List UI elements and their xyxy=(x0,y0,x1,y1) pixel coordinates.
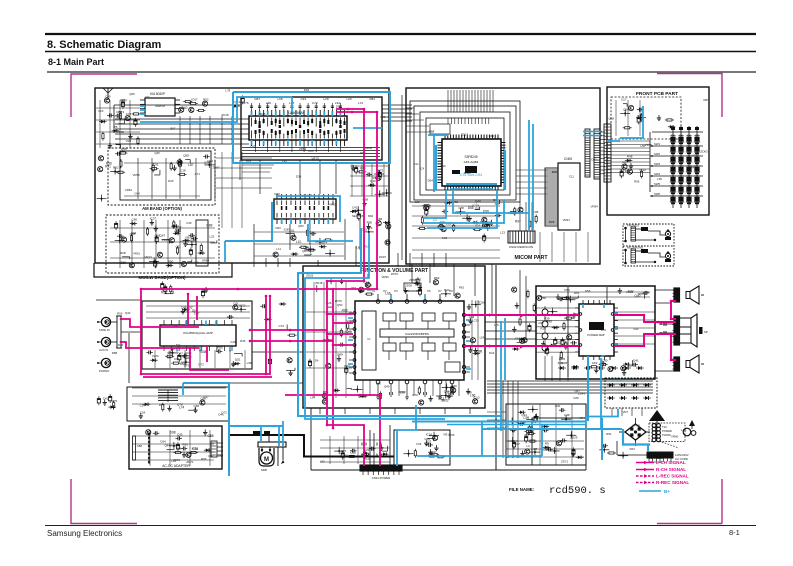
svg-text:AC-DC ADAPTER: AC-DC ADAPTER xyxy=(162,464,190,468)
svg-text:P3: P3 xyxy=(394,289,398,293)
svg-text:VR80: VR80 xyxy=(202,258,210,262)
svg-text:8-1 Main Part: 8-1 Main Part xyxy=(48,57,104,67)
svg-text:ZD54: ZD54 xyxy=(299,147,306,151)
svg-text:R59: R59 xyxy=(117,312,123,316)
svg-text:R42: R42 xyxy=(344,364,350,368)
svg-text:C41: C41 xyxy=(103,397,109,401)
svg-text:D97: D97 xyxy=(475,207,481,211)
svg-text:C88: C88 xyxy=(137,444,143,448)
svg-text:R28: R28 xyxy=(120,251,126,255)
svg-text:Q26: Q26 xyxy=(623,107,629,111)
svg-text:SW1: SW1 xyxy=(654,142,661,146)
svg-text:C11: C11 xyxy=(569,174,574,178)
svg-text:R5: R5 xyxy=(114,125,118,129)
svg-text:C33: C33 xyxy=(473,319,479,323)
svg-text:Q78: Q78 xyxy=(177,402,183,406)
svg-text:D46: D46 xyxy=(218,413,224,417)
svg-text:IC37: IC37 xyxy=(150,216,157,220)
svg-text:SW4: SW4 xyxy=(654,172,661,176)
svg-text:Q63: Q63 xyxy=(155,233,161,237)
svg-text:Q65: Q65 xyxy=(346,330,352,334)
svg-text:IC20: IC20 xyxy=(152,354,159,358)
svg-text:R-CH SIGNAL: R-CH SIGNAL xyxy=(656,467,686,472)
svg-text:C85: C85 xyxy=(308,149,314,153)
svg-text:R81: R81 xyxy=(574,291,580,295)
svg-text:C18: C18 xyxy=(416,442,422,446)
svg-text:R55: R55 xyxy=(161,290,167,294)
svg-text:R50: R50 xyxy=(217,345,223,349)
svg-text:Q30: Q30 xyxy=(125,311,131,315)
svg-text:R62: R62 xyxy=(459,285,465,289)
svg-text:MIC/PHONO: MIC/PHONO xyxy=(627,246,644,250)
svg-text:M08: M08 xyxy=(261,468,267,472)
svg-text:C26: C26 xyxy=(230,340,236,344)
svg-text:SW: SW xyxy=(679,135,684,138)
svg-text:L26: L26 xyxy=(366,457,371,461)
svg-text:R90: R90 xyxy=(168,259,174,263)
svg-text:R88: R88 xyxy=(112,351,118,355)
svg-text:ZD15: ZD15 xyxy=(379,255,386,259)
svg-text:R87: R87 xyxy=(703,98,709,102)
svg-text:Q82: Q82 xyxy=(208,454,214,458)
svg-text:SECTION: SECTION xyxy=(352,214,364,218)
svg-text:C82: C82 xyxy=(538,321,544,325)
svg-text:R28: R28 xyxy=(540,326,546,330)
svg-text:R9: R9 xyxy=(545,441,549,445)
svg-text:ZD18: ZD18 xyxy=(258,112,265,116)
svg-text:C68: C68 xyxy=(194,404,200,408)
svg-text:D94: D94 xyxy=(131,231,137,235)
svg-text:R76: R76 xyxy=(243,101,249,105)
svg-text:R81: R81 xyxy=(370,97,376,101)
svg-text:Q38: Q38 xyxy=(609,116,615,120)
svg-text:KIA4558 EQUAL AMP: KIA4558 EQUAL AMP xyxy=(183,331,213,335)
svg-text:ZD87: ZD87 xyxy=(212,166,219,170)
svg-text:R48: R48 xyxy=(627,155,633,159)
svg-text:POWER: POWER xyxy=(662,429,672,433)
svg-text:ZD70: ZD70 xyxy=(391,272,398,276)
svg-text:Q67: Q67 xyxy=(160,234,166,238)
svg-text:D56: D56 xyxy=(585,289,591,293)
svg-text:C54: C54 xyxy=(140,404,146,408)
svg-text:L54: L54 xyxy=(480,335,485,339)
svg-text:C17: C17 xyxy=(429,129,435,133)
svg-text:VR15: VR15 xyxy=(633,423,641,427)
svg-text:VR56: VR56 xyxy=(133,173,141,177)
svg-text:C95: C95 xyxy=(250,145,256,149)
svg-text:D4: D4 xyxy=(344,453,348,457)
svg-text:C69: C69 xyxy=(120,261,126,265)
svg-text:ZD30: ZD30 xyxy=(405,283,412,287)
svg-text:ZD15: ZD15 xyxy=(645,143,652,147)
svg-text:VR3: VR3 xyxy=(126,139,132,143)
svg-text:Q50: Q50 xyxy=(337,303,343,307)
svg-text:VR50: VR50 xyxy=(451,200,459,204)
svg-text:Q45: Q45 xyxy=(121,147,127,151)
svg-text:VR48: VR48 xyxy=(689,166,697,170)
svg-text:VR3: VR3 xyxy=(275,226,281,230)
svg-text:L96: L96 xyxy=(376,382,381,386)
svg-text:PHONES: PHONES xyxy=(627,224,639,228)
svg-text:L20: L20 xyxy=(347,97,352,101)
svg-text:IC4: IC4 xyxy=(475,224,480,228)
svg-text:D92: D92 xyxy=(591,158,597,162)
svg-text:D66: D66 xyxy=(625,169,631,173)
svg-text:R93: R93 xyxy=(182,442,188,446)
svg-text:VR91: VR91 xyxy=(563,218,571,222)
svg-text:R80: R80 xyxy=(541,296,547,300)
svg-text:KIA 6040P: KIA 6040P xyxy=(150,92,165,96)
svg-text:ZD5: ZD5 xyxy=(558,361,564,365)
svg-text:C99: C99 xyxy=(105,95,111,99)
svg-text:L95: L95 xyxy=(657,177,662,181)
svg-text:D89: D89 xyxy=(549,220,555,224)
svg-text:R91: R91 xyxy=(606,432,612,436)
svg-text:VR51: VR51 xyxy=(133,252,141,256)
svg-text:Q89: Q89 xyxy=(337,353,343,357)
svg-text:C18: C18 xyxy=(515,336,521,340)
svg-text:AUX IN: AUX IN xyxy=(99,348,108,352)
svg-text:Q79: Q79 xyxy=(184,364,190,368)
svg-text:C27: C27 xyxy=(621,98,627,102)
svg-text:VR2: VR2 xyxy=(629,447,635,451)
svg-text:Q40: Q40 xyxy=(440,164,446,168)
svg-text:D24: D24 xyxy=(160,439,166,443)
svg-text:MW/LW BAND(OPTION): MW/LW BAND(OPTION) xyxy=(139,275,187,280)
svg-text:L98: L98 xyxy=(247,361,252,365)
svg-text:VR96: VR96 xyxy=(382,275,390,279)
svg-text:D94: D94 xyxy=(428,178,434,182)
svg-text:C75: C75 xyxy=(112,399,118,403)
svg-text:VR45: VR45 xyxy=(173,458,181,462)
svg-text:D89: D89 xyxy=(207,223,213,227)
svg-text:SW6: SW6 xyxy=(654,192,661,196)
svg-text:Q49: Q49 xyxy=(384,384,390,388)
svg-text:R92: R92 xyxy=(434,276,440,280)
svg-text:D98: D98 xyxy=(170,431,176,435)
svg-text:8-1: 8-1 xyxy=(729,528,740,537)
svg-text:R95: R95 xyxy=(201,457,207,461)
svg-text:VR84: VR84 xyxy=(591,204,599,208)
svg-text:ZD42: ZD42 xyxy=(365,146,372,150)
svg-text:C62: C62 xyxy=(592,361,598,365)
svg-text:D73: D73 xyxy=(198,363,204,367)
svg-text:C92: C92 xyxy=(633,327,639,331)
svg-text:VR63: VR63 xyxy=(329,202,337,206)
svg-text:L-REC SIGNAL: L-REC SIGNAL xyxy=(656,474,689,479)
svg-text:ZD84: ZD84 xyxy=(409,278,416,282)
svg-text:C41: C41 xyxy=(380,115,386,119)
svg-text:Q45: Q45 xyxy=(154,151,160,155)
svg-text:R70: R70 xyxy=(601,328,607,332)
svg-text:R70: R70 xyxy=(413,393,419,397)
svg-text:R-REC SIGNAL: R-REC SIGNAL xyxy=(656,480,689,485)
svg-text:ZD17: ZD17 xyxy=(461,132,468,136)
svg-text:D25: D25 xyxy=(426,439,432,443)
svg-text:L58: L58 xyxy=(194,261,199,265)
svg-text:C72: C72 xyxy=(278,324,284,328)
svg-text:L67: L67 xyxy=(145,95,150,99)
svg-text:Q34: Q34 xyxy=(179,354,185,358)
svg-text:IC22: IC22 xyxy=(239,303,246,307)
svg-text:R87: R87 xyxy=(622,161,628,165)
svg-text:R45: R45 xyxy=(489,134,495,138)
svg-text:L66: L66 xyxy=(385,292,391,296)
svg-text:R17: R17 xyxy=(159,403,165,407)
svg-text:PHONO: PHONO xyxy=(99,369,110,373)
svg-text:L29: L29 xyxy=(324,97,329,101)
svg-text:ZD81: ZD81 xyxy=(464,171,471,175)
svg-text:C73: C73 xyxy=(312,101,318,105)
svg-text:ZD26: ZD26 xyxy=(162,238,169,242)
svg-text:C64: C64 xyxy=(134,191,140,195)
svg-text:Q80: Q80 xyxy=(168,350,174,354)
svg-text:Q58: Q58 xyxy=(183,154,189,158)
svg-text:TRANS: TRANS xyxy=(662,433,671,437)
svg-text:R52: R52 xyxy=(203,98,209,102)
svg-text:KA2245D/KBPRS: KA2245D/KBPRS xyxy=(405,332,429,336)
svg-text:D71: D71 xyxy=(195,172,201,176)
svg-text:SW3: SW3 xyxy=(654,162,661,166)
svg-text:SW: SW xyxy=(687,135,692,138)
svg-text:KIA6058AF: KIA6058AF xyxy=(287,111,304,115)
svg-text:ZD87: ZD87 xyxy=(552,170,559,174)
svg-text:CN02 REMOCON: CN02 REMOCON xyxy=(509,245,533,249)
svg-text:Q20: Q20 xyxy=(204,161,210,165)
svg-text:D34: D34 xyxy=(296,175,302,179)
svg-text:S3P8245: S3P8245 xyxy=(464,155,477,159)
svg-text:C30: C30 xyxy=(555,404,561,408)
svg-text:C12: C12 xyxy=(176,225,182,229)
svg-text:VR23: VR23 xyxy=(144,255,152,259)
svg-text:R79: R79 xyxy=(367,226,373,230)
svg-text:R70: R70 xyxy=(451,384,457,388)
svg-text:C4: C4 xyxy=(420,166,424,170)
svg-text:VR17: VR17 xyxy=(692,154,700,158)
svg-text:Samsung Electronics: Samsung Electronics xyxy=(47,529,122,538)
svg-text:C33: C33 xyxy=(442,236,448,240)
svg-text:C80: C80 xyxy=(573,396,579,400)
svg-text:Q24: Q24 xyxy=(444,288,450,292)
svg-text:C43: C43 xyxy=(177,432,183,436)
svg-text:ZD71: ZD71 xyxy=(561,460,568,464)
svg-text:rcd590. s: rcd590. s xyxy=(549,485,606,497)
svg-text:SW: SW xyxy=(671,135,676,138)
svg-text:D10: D10 xyxy=(557,341,563,345)
svg-text:D56: D56 xyxy=(336,105,342,109)
svg-text:L34: L34 xyxy=(310,396,315,400)
svg-text:VR54: VR54 xyxy=(125,188,133,192)
svg-text:L72: L72 xyxy=(358,101,363,105)
svg-text:VR7: VR7 xyxy=(623,410,629,414)
svg-text:ZD71: ZD71 xyxy=(186,460,193,464)
svg-text:IC12: IC12 xyxy=(640,168,647,172)
svg-text:C18: C18 xyxy=(180,168,186,172)
svg-text:C78: C78 xyxy=(458,206,464,210)
svg-text:ZD63: ZD63 xyxy=(701,150,708,154)
svg-text:L95: L95 xyxy=(681,428,686,432)
svg-text:R95: R95 xyxy=(634,179,640,183)
svg-text:VR11: VR11 xyxy=(443,432,450,436)
svg-text:AM BAND (OPTION): AM BAND (OPTION) xyxy=(142,206,182,211)
svg-text:L91: L91 xyxy=(290,229,295,233)
svg-text:L-CH SIGNAL: L-CH SIGNAL xyxy=(656,460,686,465)
svg-text:POWER AMP: POWER AMP xyxy=(587,333,604,337)
svg-text:ZD53: ZD53 xyxy=(216,454,223,458)
svg-text:VR60: VR60 xyxy=(671,435,679,439)
svg-text:SW5: SW5 xyxy=(654,182,661,186)
svg-text:D55: D55 xyxy=(468,206,474,210)
svg-text:R92: R92 xyxy=(368,214,374,218)
svg-text:L96: L96 xyxy=(266,101,271,105)
svg-text:AZZ-AQB4: AZZ-AQB4 xyxy=(464,160,479,164)
svg-text:D48: D48 xyxy=(201,350,207,354)
svg-text:IC10: IC10 xyxy=(473,395,480,399)
svg-text:L10: L10 xyxy=(296,240,302,244)
svg-text:MICOM PART: MICOM PART xyxy=(514,255,548,261)
svg-text:D27: D27 xyxy=(515,442,521,446)
svg-text:R39: R39 xyxy=(118,343,124,347)
svg-text:VR82: VR82 xyxy=(117,130,125,134)
svg-text:L82: L82 xyxy=(415,200,420,204)
svg-text:C15: C15 xyxy=(98,109,104,113)
svg-text:VR96: VR96 xyxy=(626,290,634,294)
svg-text:TA: TA xyxy=(355,209,359,213)
svg-text:Q11: Q11 xyxy=(233,301,239,305)
svg-text:C8: C8 xyxy=(167,355,171,359)
svg-text:C60: C60 xyxy=(132,218,138,222)
svg-text:Q8: Q8 xyxy=(533,447,537,451)
svg-text:IC67: IC67 xyxy=(191,98,198,102)
svg-text:TAPE IN: TAPE IN xyxy=(99,328,110,332)
svg-text:ZD7: ZD7 xyxy=(442,398,448,402)
svg-text:ZD18: ZD18 xyxy=(221,113,228,117)
svg-text:L83: L83 xyxy=(320,460,325,464)
svg-text:L78: L78 xyxy=(225,89,230,93)
svg-text:Q83: Q83 xyxy=(298,224,304,228)
svg-text:IC16: IC16 xyxy=(426,432,433,436)
svg-text:C75: C75 xyxy=(378,169,384,173)
svg-text:L76: L76 xyxy=(494,323,499,327)
svg-text:Q40: Q40 xyxy=(475,199,481,203)
svg-text:L3: L3 xyxy=(526,444,530,448)
svg-text:L11: L11 xyxy=(276,247,281,251)
svg-text:Q40: Q40 xyxy=(634,294,640,298)
svg-text:D19: D19 xyxy=(489,351,495,355)
svg-text:C85: C85 xyxy=(400,390,406,394)
svg-text:C21: C21 xyxy=(413,162,419,166)
svg-text:P7: P7 xyxy=(438,289,442,293)
svg-text:L25: L25 xyxy=(209,235,214,239)
svg-text:ZD9: ZD9 xyxy=(233,362,239,366)
svg-text:R30: R30 xyxy=(168,179,174,183)
svg-text:R35: R35 xyxy=(240,339,246,343)
svg-text:M: M xyxy=(264,457,269,463)
svg-text:CN05: CN05 xyxy=(564,157,572,161)
svg-text:B+: B+ xyxy=(664,489,670,494)
svg-text:D4: D4 xyxy=(315,358,319,362)
svg-text:ZD25: ZD25 xyxy=(306,274,313,278)
svg-text:FRONT PCB PART: FRONT PCB PART xyxy=(636,91,678,97)
svg-text:Q31: Q31 xyxy=(521,413,527,417)
svg-text:R36: R36 xyxy=(192,447,198,451)
svg-text:Q98: Q98 xyxy=(120,98,126,102)
svg-text:IC91: IC91 xyxy=(152,163,159,167)
svg-text:R62: R62 xyxy=(113,165,119,169)
svg-text:Q67: Q67 xyxy=(170,127,176,131)
svg-text:ZD29: ZD29 xyxy=(570,435,577,439)
svg-text:CN21 POWER: CN21 POWER xyxy=(372,476,391,480)
svg-text:C36: C36 xyxy=(186,221,192,225)
svg-text:T01: T01 xyxy=(662,425,667,429)
svg-text:Q44: Q44 xyxy=(444,390,450,394)
svg-text:C33: C33 xyxy=(301,97,307,101)
svg-text:ZD18: ZD18 xyxy=(315,281,322,285)
svg-text:P6: P6 xyxy=(427,289,431,293)
svg-text:R90: R90 xyxy=(367,220,373,224)
svg-text:D11: D11 xyxy=(176,343,181,347)
svg-text:VR71: VR71 xyxy=(180,239,188,243)
svg-text:C54: C54 xyxy=(140,411,146,415)
svg-text:FILE NAME:: FILE NAME: xyxy=(509,487,535,492)
svg-text:SW2: SW2 xyxy=(654,152,661,156)
svg-text:Q41: Q41 xyxy=(633,359,639,363)
svg-text:8. Schematic Diagram: 8. Schematic Diagram xyxy=(47,39,162,51)
svg-text:Q44: Q44 xyxy=(164,444,170,448)
svg-text:C72: C72 xyxy=(126,112,132,116)
svg-text:P8: P8 xyxy=(449,289,453,293)
svg-text:L23: L23 xyxy=(500,230,505,234)
svg-text:IC77: IC77 xyxy=(424,206,431,210)
svg-text:C46: C46 xyxy=(564,413,570,417)
svg-text:L87: L87 xyxy=(188,163,194,167)
svg-text:VR70: VR70 xyxy=(311,156,319,160)
svg-text:Q84: Q84 xyxy=(116,110,122,114)
svg-text:SP: SP xyxy=(704,330,708,334)
svg-text:Q66: Q66 xyxy=(129,92,135,96)
svg-text:Q97: Q97 xyxy=(574,389,580,393)
svg-text:Q17: Q17 xyxy=(203,395,209,399)
svg-text:SW: SW xyxy=(695,135,700,138)
svg-text:ZD26: ZD26 xyxy=(478,301,485,305)
svg-text:D54: D54 xyxy=(564,288,570,292)
